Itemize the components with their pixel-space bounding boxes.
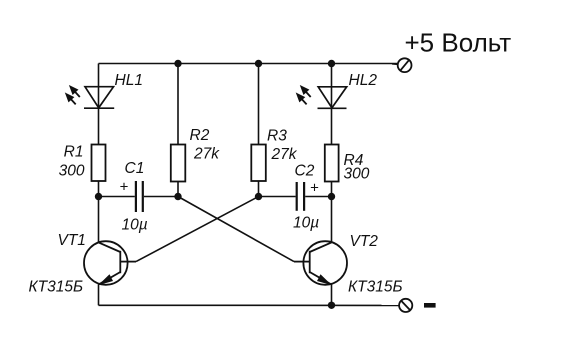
svg-text:КТ315Б: КТ315Б bbox=[348, 279, 403, 296]
wire C1 to node B bbox=[144, 196, 178, 198]
wire terminal lead top bbox=[392, 63, 398, 66]
svg-text:VT2: VT2 bbox=[350, 233, 379, 250]
node A dot bbox=[95, 193, 102, 200]
svg-text:R2: R2 bbox=[190, 127, 210, 144]
wire right column (VT2 collector branch) bbox=[331, 64, 333, 145]
VT1 emitter arrow bbox=[98, 274, 113, 285]
svg-text:27k: 27k bbox=[271, 146, 298, 163]
node junction dot rail D bbox=[328, 60, 335, 67]
node junction dot rail C bbox=[255, 60, 262, 67]
terminal minus bbox=[399, 299, 412, 312]
wire node C to C2 bbox=[259, 196, 296, 198]
svg-text:300: 300 bbox=[59, 163, 85, 180]
terminal +5V bbox=[398, 58, 412, 72]
wire R2 top lead bbox=[177, 64, 179, 145]
svg-text:R3: R3 bbox=[267, 128, 287, 145]
LED HL1 bbox=[84, 87, 114, 109]
svg-text:+: + bbox=[310, 180, 319, 197]
resistor R3 bbox=[251, 145, 265, 182]
svg-text:300: 300 bbox=[344, 166, 370, 183]
wire R2 to node B bbox=[177, 182, 179, 197]
LED HL1 light arrows bbox=[66, 86, 80, 104]
label minus sign bbox=[424, 303, 436, 308]
svg-text:R1: R1 bbox=[64, 144, 84, 161]
wire C2 to node D bbox=[305, 196, 331, 198]
resistor R4 bbox=[325, 145, 339, 182]
capacitor C1 bbox=[136, 181, 143, 212]
node B dot bbox=[174, 193, 181, 200]
wire VT1 emitter to bottom rail bbox=[98, 284, 100, 305]
capacitor C2 bbox=[297, 182, 304, 211]
wire VT1 collector lead bbox=[98, 197, 100, 243]
wire R3 top lead bbox=[258, 64, 260, 145]
wire VT2 emitter to bottom rail bbox=[331, 284, 333, 305]
transistor VT1 bbox=[84, 241, 136, 285]
wire top supply rail bbox=[99, 63, 398, 65]
resistor R2 bbox=[171, 145, 186, 182]
wire R1 to node A bbox=[98, 181, 100, 197]
wire left column (VT1 collector branch) bbox=[98, 64, 100, 145]
svg-text:10µ: 10µ bbox=[293, 215, 319, 232]
wire cross-coupling node B to VT2 base bbox=[178, 197, 294, 262]
svg-text:C1: C1 bbox=[125, 160, 145, 177]
LED HL2 light arrows bbox=[297, 86, 311, 104]
svg-text:+: + bbox=[120, 179, 129, 196]
svg-text:VT1: VT1 bbox=[58, 232, 86, 249]
svg-text:C2: C2 bbox=[295, 163, 315, 180]
wire VT2 collector lead bbox=[331, 197, 333, 243]
LED HL2 bbox=[318, 87, 347, 109]
wire bottom rail bbox=[99, 304, 400, 306]
node junction dot rail B bbox=[174, 60, 181, 67]
svg-text:27k: 27k bbox=[193, 146, 220, 163]
svg-text:КТ315Б: КТ315Б bbox=[29, 279, 84, 296]
wire cross-coupling node C to VT1 base bbox=[136, 197, 259, 262]
wire node A to C1 bbox=[99, 196, 135, 198]
resistor R1 bbox=[92, 145, 106, 182]
node D dot bbox=[328, 193, 335, 200]
node C dot bbox=[255, 193, 262, 200]
svg-text:10µ: 10µ bbox=[122, 217, 148, 234]
wire R3 to node C bbox=[258, 181, 260, 197]
svg-text:HL2: HL2 bbox=[349, 72, 378, 89]
svg-text:HL1: HL1 bbox=[115, 72, 143, 89]
transistor VT2 bbox=[294, 241, 347, 285]
VT2 emitter arrow bbox=[317, 274, 332, 285]
svg-text:+5 Вольт: +5 Вольт bbox=[405, 28, 512, 58]
wire R4 to node D bbox=[331, 182, 333, 197]
node emitter-rail dot bbox=[328, 302, 335, 309]
